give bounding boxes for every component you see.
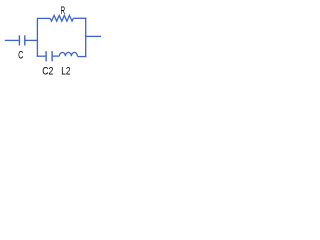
- svg-text:R: R: [61, 5, 66, 17]
- svg-text:C: C: [18, 50, 23, 62]
- svg-text:L2: L2: [61, 65, 70, 77]
- svg-text:C2: C2: [42, 65, 53, 77]
